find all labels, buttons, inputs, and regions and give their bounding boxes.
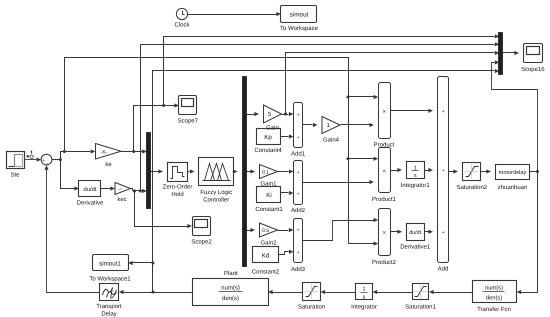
svg-text:motordelay: motordelay [499,169,527,176]
wire Sum output jog up to ke [52,152,91,160]
wire ZOH to Fuzzy Logic Controller [188,169,195,173]
arrowhead into Scope2 [187,224,192,228]
wire Ki to Add2 [281,191,294,195]
sum block Add [438,77,449,273]
svg-text:+: + [297,170,300,176]
transfer function block Plant [193,270,269,306]
svg-text:0.5: 0.5 [262,228,269,234]
junction node Gain output [284,113,287,116]
junction node e branch [63,150,66,153]
arrowhead into Mux input 2 [142,189,147,193]
svg-text:To Workspace1: To Workspace1 [89,276,131,283]
svg-text:kec: kec [117,196,126,203]
svg-text:Gain2: Gain2 [260,240,277,247]
svg-text:Product2: Product2 [372,259,397,266]
wire Kd to Add3 with jog [279,250,294,255]
wire L2 ec*kec to Scope16 mux [141,45,495,191]
wire e to Product input 1 [349,95,379,99]
svg-text:Derivative1: Derivative1 [400,243,431,250]
svg-text:+: + [297,113,300,119]
arrowhead mux2 input 3 [495,51,500,55]
svg-text:simout1: simout1 [99,261,121,268]
saturation block Saturation [298,283,325,311]
arrowhead mux2 input 1 [495,34,500,38]
wire Integrator to Saturation [325,292,356,294]
arrowhead mux2 input 5 [495,69,500,73]
svg-text:+: + [442,109,445,115]
svg-text:Gain: Gain [266,124,279,131]
arrowhead into Scope7 [174,103,179,107]
svg-text:Integrator1: Integrator1 [401,182,431,189]
wire ke branch to Scope7 [134,106,175,152]
wire L5 plant output to Scope16 mux [153,71,495,293]
sum junction Sum [41,154,52,167]
integrator block Integrator1 [401,162,431,189]
svg-text:+: + [297,135,300,141]
sum block Add3 [291,219,306,273]
arrowhead into Mux input 1 [142,149,147,153]
wire ke to Mux [121,151,143,153]
svg-text:zhuanhuan: zhuanhuan [498,184,528,191]
svg-text:ke: ke [105,161,112,168]
product block Product2 [372,209,397,266]
wire Demux out3 to Gain2 [247,228,256,232]
wire Saturation2 to zhuanhuan [481,169,492,173]
gain block kec [115,183,131,204]
wire Clock to simout [188,12,282,16]
saturation block Saturation2 [456,163,487,192]
arrowhead into Derivative [74,186,79,190]
arrowhead into simout1 [128,261,133,265]
wire Product1 to Integrator1 [391,168,403,172]
arrowhead into Transport Delay [119,290,124,294]
constant block Kp [254,129,282,154]
wire mux to Scope16 [503,51,520,55]
sum block Add2 [291,161,306,214]
mux bar Mux [147,133,151,209]
svg-text:0.1: 0.1 [262,170,269,176]
svg-text:Transfer Fcn: Transfer Fcn [477,306,511,313]
svg-text:Ki: Ki [266,192,272,199]
svg-text:s: s [414,173,417,179]
svg-text:Scope16: Scope16 [521,66,545,73]
wire Mux to Zero-Order Hold [151,169,164,173]
svg-text:To Workspace: To Workspace [280,25,319,32]
svg-text:Derivative: Derivative [77,199,104,206]
svg-text:Plant: Plant [224,270,238,277]
svg-text:Constant1: Constant1 [255,206,283,213]
junction node kec output A [133,190,136,193]
junction node kec output B [139,190,142,193]
svg-text:Zero-Order: Zero-Order [163,184,193,191]
wire L1 e*ke to Scope16 mux [164,37,495,106]
wire Integrator1 to Add input 2 [425,168,434,172]
svg-text:du/dt: du/dt [409,230,421,236]
svg-text:Kp: Kp [264,134,272,141]
gain block Gain4 value 1 [322,117,340,144]
scope block Scope2 [191,217,212,246]
svg-text:s: s [363,294,366,300]
arrowhead into Saturation [321,290,326,294]
demux bar Demux [243,77,247,267]
svg-text:Delay: Delay [101,310,116,317]
wire feedback down to Transfer Fcn [521,172,538,293]
wire Demux out1 to Gain [247,112,260,116]
wire Transport Delay feedback to Sum [44,165,99,292]
arrowhead into Saturation1 [429,290,434,294]
wire Gain to Add1 [282,114,289,116]
svg-text:Constant2: Constant2 [252,269,280,276]
wire Saturation to Plant [273,292,303,294]
gain block Gain1 value 0.1 [260,165,278,188]
product block Product1 [372,148,397,203]
arrowhead into Integrator [373,290,378,294]
svg-text:Clock: Clock [174,22,190,29]
svg-text:+: + [442,168,445,174]
svg-text:Kd: Kd [262,253,270,260]
svg-text:Integrator: Integrator [351,304,377,311]
wire feedback up to Scope16 mux input 4 [492,60,538,171]
wire Add1 to Gain4 [303,123,318,127]
junction node scope7 line [162,104,165,107]
svg-text:×: × [382,168,386,175]
svg-text:Fuzzy Logic: Fuzzy Logic [200,189,232,196]
wire Demux out2 to Gain1 [247,169,256,173]
wire Transfer Fcn to Saturation1 [434,292,473,294]
svg-text:×: × [382,230,386,237]
step source block Ste [7,152,25,179]
wire e to Product1 input 1 [349,157,379,161]
arrowhead mux2 input 2 [495,42,500,46]
wire Plant to Transport Delay [123,292,193,294]
wire L3 Kp-term to Scope16 mux [286,53,495,115]
zero-order hold block [163,163,193,199]
wire Product2 to Derivative1 [391,230,403,234]
junction node ke output [132,150,135,153]
fuzzy logic controller block [199,158,234,204]
transport delay block [96,284,122,317]
svg-text:Product1: Product1 [372,196,397,203]
svg-text:Scope2: Scope2 [191,239,212,246]
wire to simout1 [133,262,153,264]
wire Gain4 to Product input 2 [341,123,375,127]
svg-text:Controller: Controller [203,197,229,204]
svg-text:Add2: Add2 [291,207,306,214]
scope block Scope16 [521,44,545,74]
svg-text:du/dt: du/dt [84,186,97,193]
wire Kp to Add1 [281,134,294,138]
wire Derivative to kec [101,186,116,190]
arrowhead into Add1 input 1 [289,112,294,116]
wire Add to Saturation2 [449,169,459,173]
svg-text:num(s): num(s) [221,285,240,292]
derivative block Derivative1 [400,224,431,251]
svg-text:Ste: Ste [10,172,20,179]
svg-text:Add3: Add3 [291,266,306,273]
constant block Kd [252,247,280,276]
wire Add2 to Product1 input 2 [303,180,375,184]
svg-text:+: + [442,230,445,236]
junction node to Product [347,96,350,99]
gain block Gain value 5 [264,105,282,131]
svg-text:Saturation: Saturation [298,304,325,311]
product block Product [374,83,395,149]
wire kec to Mux [131,189,143,191]
svg-text:Gain4: Gain4 [323,137,340,144]
junction node to Product1 [347,157,350,160]
svg-text:den(s): den(s) [486,294,503,301]
gain block ke [96,144,122,169]
derivative block Derivative [77,181,104,207]
gain block Gain2 value 0.5 [260,223,278,247]
wire Derivative1 to Add input 3 [425,230,434,234]
svg-text:Saturation1: Saturation1 [405,304,436,311]
to-workspace block simout1 [89,255,131,283]
junction node on sum output [59,158,62,161]
scope block Scope7 [178,96,199,125]
wire Step to Sum with annotation marks [25,151,42,162]
svg-text:den(s): den(s) [222,295,239,302]
saturation block Saturation1 [405,284,436,311]
wire kec branch to Scope2 [135,191,188,227]
svg-text:Constant4: Constant4 [254,147,282,154]
wire Saturation1 to Integrator [377,292,413,294]
wire Sum output down to Derivative [61,160,75,189]
wire e signal to products (long) [65,58,349,239]
wire Gain2 to Add3 [278,228,294,232]
arrowhead into Plant [268,290,273,294]
clock block Clock [174,8,190,28]
svg-text:num(s): num(s) [485,284,503,291]
wire Gain1 to Add2 [278,169,294,173]
svg-text:Hold: Hold [171,191,183,198]
wire Product to Add input 1 [391,109,434,113]
junction node plant output tap [152,291,155,294]
transfer function block zhuanhuan motordelay [496,165,530,192]
svg-text:×: × [382,108,386,115]
mux bar for Scope16 [499,33,503,75]
svg-text:Transport: Transport [96,303,122,310]
junction node zhuanhuan output [536,170,539,173]
svg-text:-K-: -K- [101,149,108,155]
svg-text:simout: simout [290,12,309,19]
to-workspace block simout [280,6,319,33]
constant block Ki [255,187,283,213]
wire e vertical into Product2 lower input [349,239,379,246]
wire Fuzzy to Demux [233,169,238,173]
svg-text:Add: Add [438,266,449,273]
arrowhead into ke [91,149,96,153]
svg-text:Scope7: Scope7 [178,118,199,125]
svg-text:+: + [297,228,300,234]
junction node simout1 tap [152,262,155,265]
svg-text:Add1: Add1 [291,150,306,157]
sum block Add1 [291,103,306,158]
wire zhuanhuan output [530,171,538,173]
svg-text:Saturation2: Saturation2 [456,184,487,191]
svg-text:−ᵋ: −ᵋ [118,187,122,192]
arrowhead into Transfer Fcn [517,290,522,294]
integrator block Integrator [351,284,377,311]
transfer function block Transfer Fcn [473,281,517,314]
wire Add3 to Product2 input 1 with jog [303,218,379,241]
svg-text:1: 1 [363,287,366,293]
svg-text:+: + [297,250,300,256]
svg-text:+: + [297,192,300,198]
